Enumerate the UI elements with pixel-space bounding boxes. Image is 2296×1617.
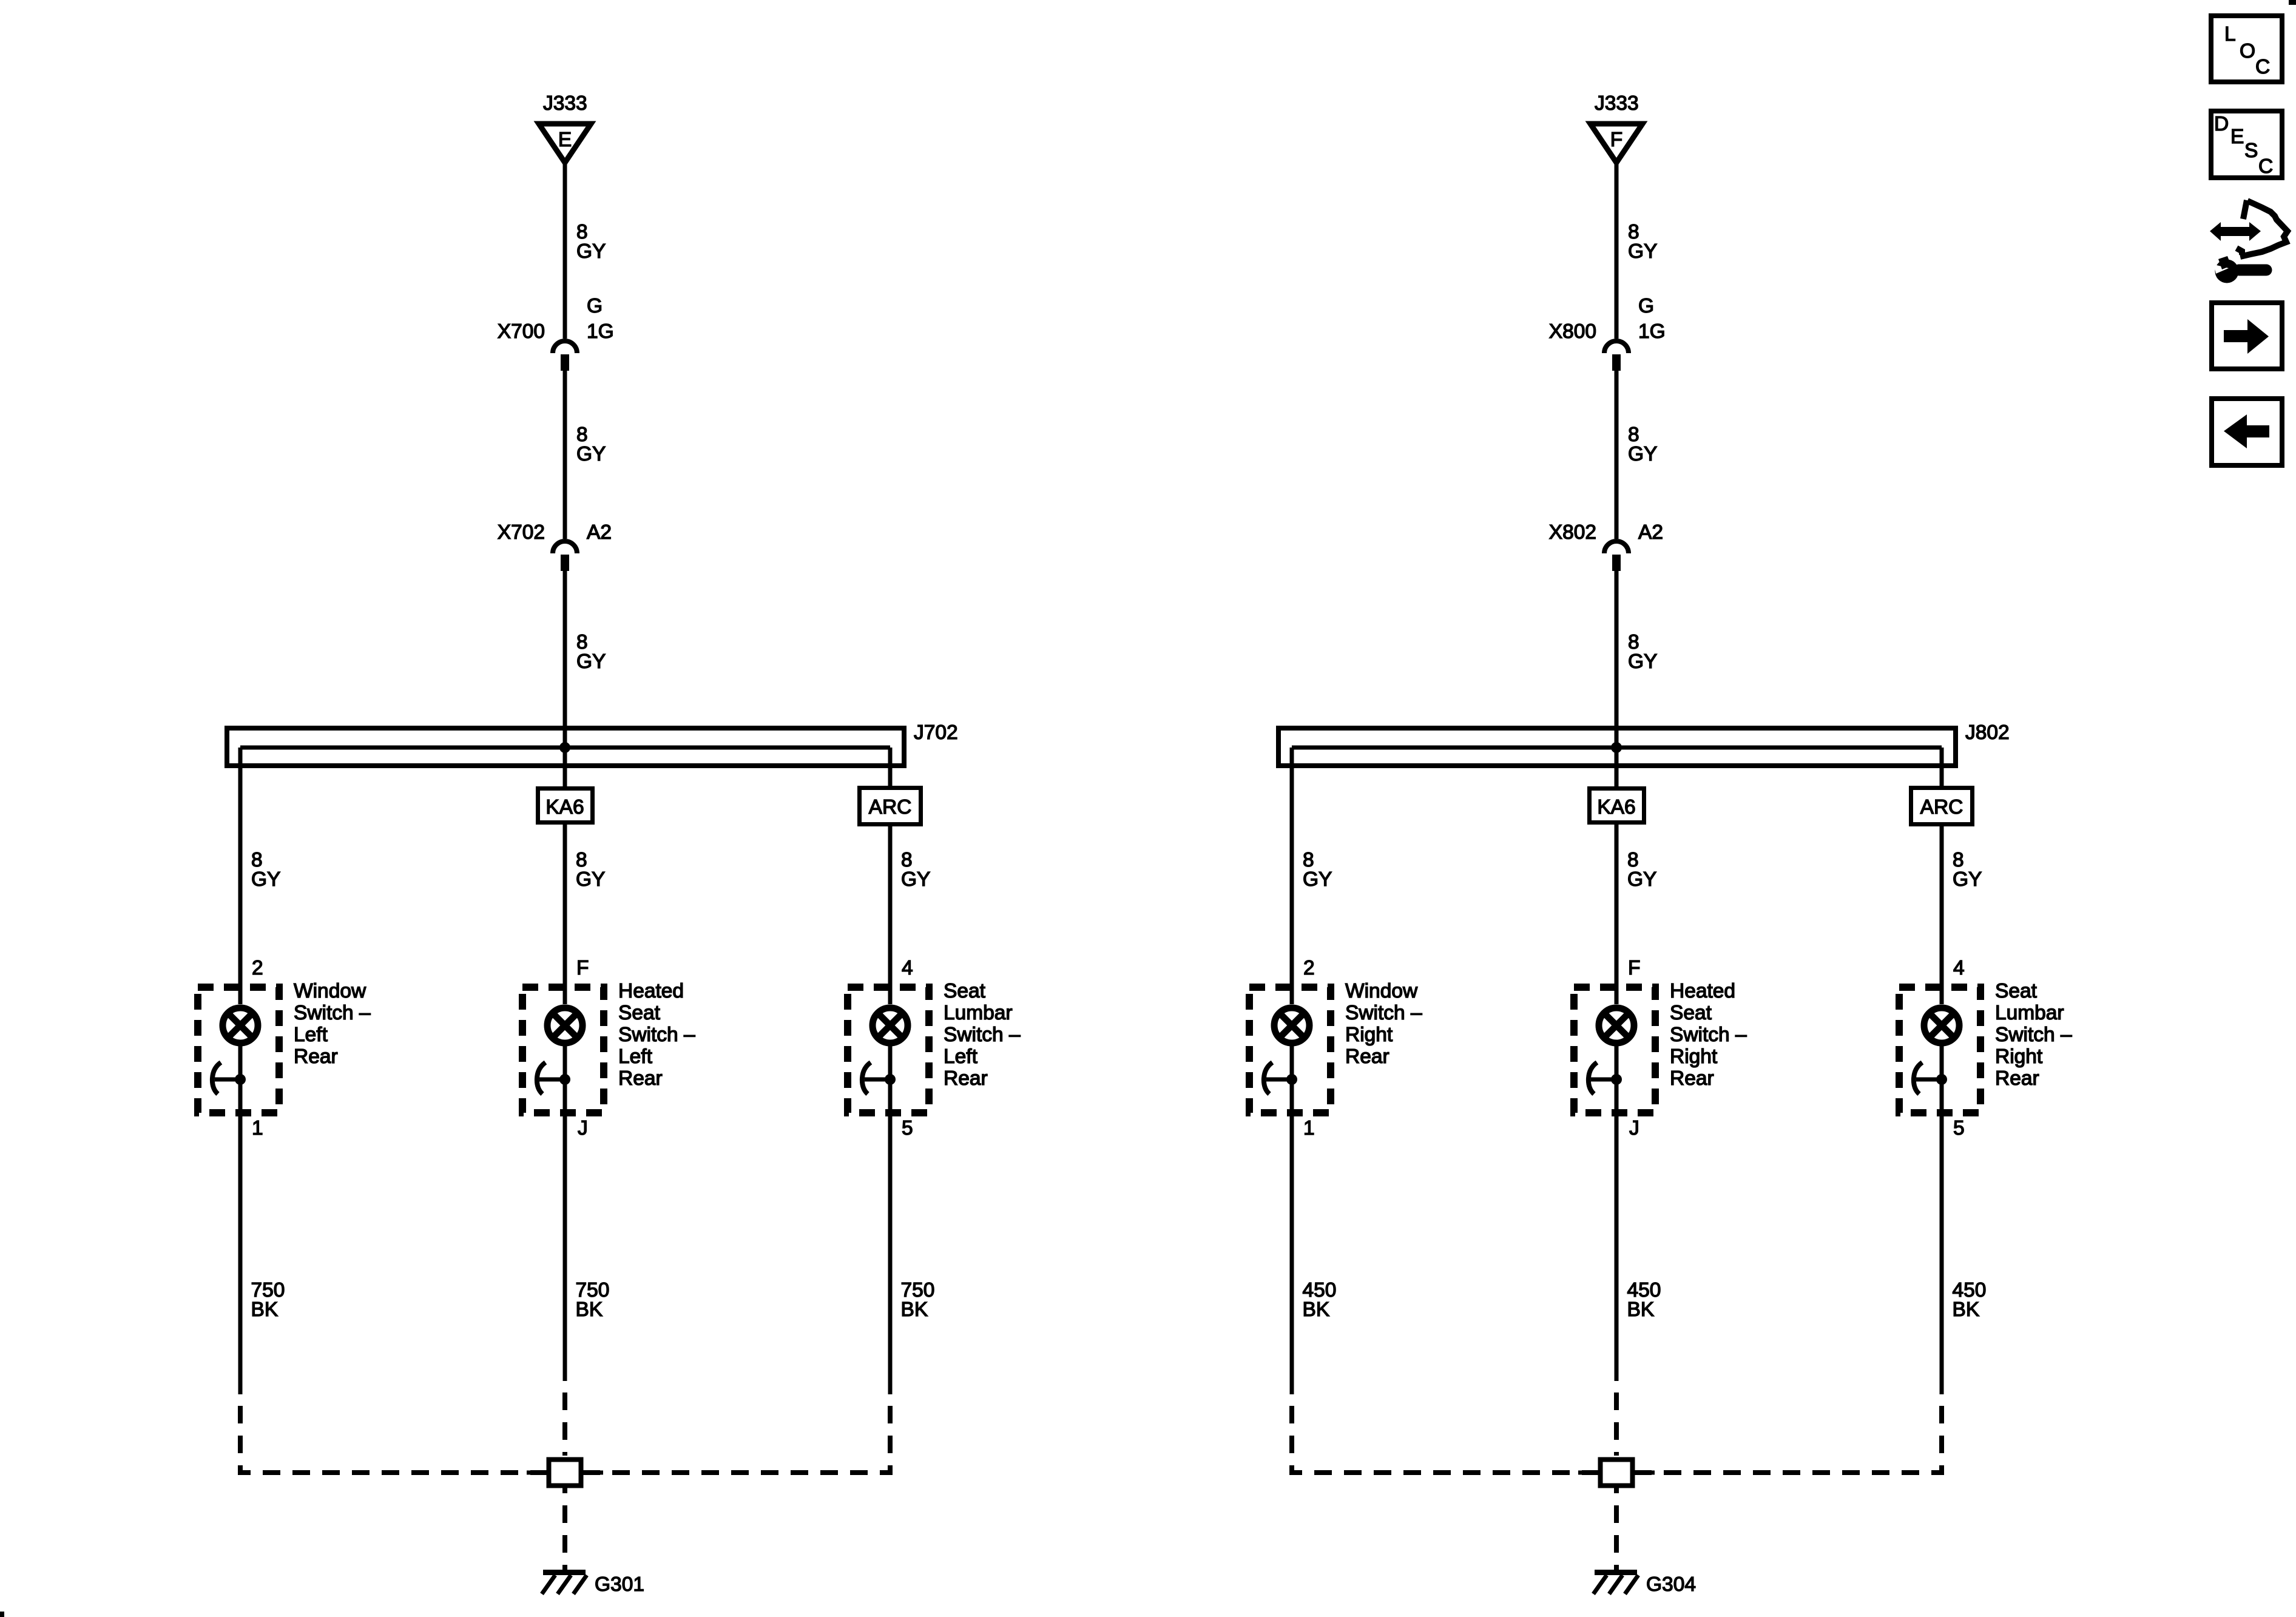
heated seat switch housing (dashed) (right half) xyxy=(1574,987,1655,1113)
svg-text:F: F xyxy=(1610,129,1622,151)
svg-text:Seat: Seat xyxy=(944,980,986,1002)
svg-text:A2: A2 xyxy=(587,521,612,544)
wire KA6 to heated seat switch, 8 GY (right half) xyxy=(1615,825,1619,1004)
wire J702 to ARC (left half) xyxy=(888,748,893,786)
nav icon LOC box xyxy=(2211,16,2282,82)
svg-text:2: 2 xyxy=(252,957,263,979)
dashed wire splice to ground (left half) xyxy=(562,1488,567,1570)
heated seat switch housing (dashed) (left half) xyxy=(522,987,604,1113)
svg-text:Switch –: Switch – xyxy=(1670,1024,1747,1046)
svg-text:Rear: Rear xyxy=(294,1045,338,1068)
connector KA6 box (left half) xyxy=(538,789,593,823)
svg-text:Switch –: Switch – xyxy=(1345,1002,1422,1024)
seat lumbar switch contact (left half) xyxy=(862,1062,896,1094)
svg-text:BK: BK xyxy=(576,1298,603,1321)
svg-text:5: 5 xyxy=(1953,1117,1965,1139)
svg-text:L: L xyxy=(2224,23,2236,46)
svg-text:Right: Right xyxy=(1345,1024,1393,1046)
svg-text:Heated: Heated xyxy=(1670,980,1735,1002)
svg-text:J: J xyxy=(578,1117,588,1139)
svg-text:Left: Left xyxy=(294,1024,328,1046)
branch wire label 8 GY (seat lumbar) (left half) xyxy=(901,849,930,891)
branch wire label 8 GY (heated seat) (right half) xyxy=(1627,849,1656,891)
branch wire label 8 GY (window) (right half) xyxy=(1303,849,1332,891)
ground wire heated seat switch (dashed) (right half) xyxy=(1614,1381,1619,1456)
svg-text:GY: GY xyxy=(1627,868,1656,891)
svg-text:F: F xyxy=(1628,957,1640,979)
ground wire window switch (dashed) (right half) xyxy=(1292,1394,1600,1473)
svg-text:X700: X700 xyxy=(498,320,545,343)
svg-text:GY: GY xyxy=(251,868,280,891)
window switch contact (right half) xyxy=(1264,1062,1297,1094)
svg-text:ARC: ARC xyxy=(1920,796,1963,819)
branch wire label 8 GY (heated seat) (left half) xyxy=(576,849,605,891)
svg-text:C: C xyxy=(2258,155,2273,178)
svg-text:Rear: Rear xyxy=(618,1067,663,1090)
svg-text:Switch –: Switch – xyxy=(294,1002,371,1024)
svg-text:J702: J702 xyxy=(914,721,958,744)
svg-text:Rear: Rear xyxy=(1995,1067,2039,1090)
seat lumbar switch contact (right half) xyxy=(1914,1062,1947,1094)
window switch housing (dashed) (right half) xyxy=(1249,987,1331,1113)
svg-text:Heated: Heated xyxy=(618,980,684,1002)
ground wire heated seat switch (dashed) (left half) xyxy=(562,1381,567,1456)
ground splice square (left half) xyxy=(527,1460,603,1486)
svg-text:Rear: Rear xyxy=(1345,1045,1389,1068)
svg-text:Rear: Rear xyxy=(944,1067,988,1090)
heated seat switch name label (left half) xyxy=(618,980,695,1090)
wire ARC to seat lumbar switch, 8 GY (right half) xyxy=(1940,826,1944,1004)
ground wire seat lumbar switch (dashed) (right half) xyxy=(1633,1394,1942,1473)
heated seat switch contact (left half) xyxy=(537,1062,570,1094)
svg-text:Window: Window xyxy=(1345,980,1418,1002)
svg-text:G301: G301 xyxy=(595,1573,644,1596)
svg-text:Switch –: Switch – xyxy=(618,1024,695,1046)
power feed triangle J333 'E' (left half) xyxy=(539,124,591,163)
wire X700 to X702, 8 GY (left half) xyxy=(563,371,567,539)
wire value label 450 BK (window) (right half) xyxy=(1303,1279,1337,1321)
svg-text:X802: X802 xyxy=(1549,521,1596,544)
svg-text:C: C xyxy=(2255,56,2270,78)
svg-text:Lumbar: Lumbar xyxy=(1995,1002,2064,1024)
svg-text:G: G xyxy=(587,295,603,317)
svg-text:Right: Right xyxy=(1995,1045,2043,1068)
heated seat switch illumination lamp (right half) xyxy=(1599,1008,1634,1043)
svg-text:1: 1 xyxy=(1303,1117,1315,1139)
nav icon forward arrow box xyxy=(2212,303,2282,369)
wire value label 8 GY (lower) (right half) xyxy=(1628,631,1657,673)
wire J802 to KA6 (right half) xyxy=(1615,748,1619,786)
svg-text:J333: J333 xyxy=(1595,92,1639,115)
wire value label 750 BK (heated seat) (left half) xyxy=(576,1279,610,1321)
window switch illumination lamp (right half) xyxy=(1274,1008,1309,1043)
svg-text:G: G xyxy=(1638,295,1654,317)
wire X702 to J702, 8 GY (left half) xyxy=(563,571,567,748)
svg-text:Switch –: Switch – xyxy=(944,1024,1021,1046)
window switch name label (right half) xyxy=(1345,980,1422,1068)
svg-text:Seat: Seat xyxy=(1670,1002,1712,1024)
seat lumbar switch name label (left half) xyxy=(944,980,1021,1090)
wire value label 450 BK (heated seat) (right half) xyxy=(1627,1279,1661,1321)
svg-text:Seat: Seat xyxy=(618,1002,661,1024)
svg-text:1G: 1G xyxy=(1638,320,1666,343)
svg-text:Right: Right xyxy=(1670,1045,1718,1068)
svg-text:GY: GY xyxy=(1628,443,1657,465)
junction block J802 outline (right half) xyxy=(1278,728,1956,766)
wire value label 750 BK (seat lumbar) (left half) xyxy=(901,1279,935,1321)
svg-text:2: 2 xyxy=(1303,957,1315,979)
wire X802 to J802, 8 GY (right half) xyxy=(1615,571,1619,748)
window switch housing (dashed) (left half) xyxy=(198,987,279,1113)
svg-text:ARC: ARC xyxy=(869,796,912,819)
junction block J702 bus bar (left half) xyxy=(240,746,890,750)
wire value label 8 GY (lower) (left half) xyxy=(576,631,606,673)
seat lumbar switch housing (dashed) (left half) xyxy=(848,987,929,1113)
ground symbol G301 (left half) xyxy=(542,1573,587,1595)
ground wire seat lumbar switch (dashed) (left half) xyxy=(581,1394,890,1473)
svg-text:F: F xyxy=(576,957,589,979)
wire J802 to window switch, 8 GY (right half) xyxy=(1290,748,1294,1004)
svg-text:Rear: Rear xyxy=(1670,1067,1714,1090)
wire ARC to seat lumbar switch, 8 GY (left half) xyxy=(888,826,893,1004)
heated seat switch contact (right half) xyxy=(1589,1062,1622,1094)
junction block J802 bus bar (right half) xyxy=(1292,746,1942,750)
junction dot on J802 bus (right half) xyxy=(1611,742,1622,753)
ground splice square (right half) xyxy=(1578,1460,1655,1486)
wire value label 8 GY (middle) (right half) xyxy=(1628,424,1657,465)
wire value label 8 GY (middle) (left half) xyxy=(576,424,606,465)
ground wire window switch (dashed) (left half) xyxy=(240,1394,549,1473)
connector ARC box (left half) xyxy=(860,788,921,825)
connector ARC box (right half) xyxy=(1911,788,1973,825)
seat lumbar switch illumination lamp (left half) xyxy=(873,1008,908,1043)
wire lamp to pin 5 (seat lumbar switch) (right half) xyxy=(1940,1046,1944,1394)
svg-text:1G: 1G xyxy=(587,320,614,343)
svg-text:Switch –: Switch – xyxy=(1995,1024,2072,1046)
svg-text:GY: GY xyxy=(1953,868,1982,891)
wire X800 to X802, 8 GY (right half) xyxy=(1615,371,1619,539)
svg-text:GY: GY xyxy=(901,868,930,891)
junction block J702 outline (left half) xyxy=(227,728,904,766)
svg-text:J: J xyxy=(1629,1117,1639,1139)
svg-text:GY: GY xyxy=(576,650,606,673)
seat lumbar switch name label (right half) xyxy=(1995,980,2072,1090)
svg-text:Window: Window xyxy=(294,980,366,1002)
heated seat switch illumination lamp (left half) xyxy=(547,1008,582,1043)
window switch name label (left half) xyxy=(294,980,371,1068)
svg-text:E: E xyxy=(2230,126,2244,148)
wire J802 to ARC (right half) xyxy=(1940,748,1944,786)
window switch illumination lamp (left half) xyxy=(223,1008,258,1043)
svg-text:5: 5 xyxy=(902,1117,913,1139)
wire value label 450 BK (seat lumbar) (right half) xyxy=(1953,1279,1987,1321)
svg-text:KA6: KA6 xyxy=(545,796,584,819)
svg-text:BK: BK xyxy=(901,1298,928,1321)
connector KA6 box (right half) xyxy=(1590,789,1644,823)
svg-text:Left: Left xyxy=(944,1045,978,1068)
wire J702 to KA6 (left half) xyxy=(563,748,567,786)
svg-text:GY: GY xyxy=(576,240,606,263)
junction dot on J702 bus (left half) xyxy=(559,742,570,753)
wire value label 750 BK (window) (left half) xyxy=(251,1279,285,1321)
svg-text:Left: Left xyxy=(618,1045,653,1068)
connector X700 symbol (left half) xyxy=(553,341,577,371)
svg-text:1: 1 xyxy=(252,1117,263,1139)
wire lamp to pin 5 (seat lumbar switch) (left half) xyxy=(888,1046,893,1394)
svg-text:Seat: Seat xyxy=(1995,980,2038,1002)
svg-text:S: S xyxy=(2244,140,2258,162)
wire lamp to pin J (heated seat switch) (left half) xyxy=(563,1046,567,1381)
seat lumbar switch illumination lamp (right half) xyxy=(1924,1008,1959,1043)
svg-text:Lumbar: Lumbar xyxy=(944,1002,1013,1024)
nav icon back arrow box xyxy=(2212,399,2282,465)
svg-text:J333: J333 xyxy=(543,92,587,115)
branch wire label 8 GY (window) (left half) xyxy=(251,849,280,891)
svg-text:G304: G304 xyxy=(1646,1573,1696,1596)
dashed wire splice to ground (right half) xyxy=(1614,1488,1619,1570)
svg-text:4: 4 xyxy=(902,957,913,979)
wire value label 8 GY (upper) (left half) xyxy=(576,221,606,263)
svg-text:A2: A2 xyxy=(1638,521,1663,544)
svg-text:J802: J802 xyxy=(1965,721,2010,744)
page corner mark bottom left xyxy=(0,1612,4,1617)
branch wire label 8 GY (seat lumbar) (right half) xyxy=(1953,849,1982,891)
window switch contact (left half) xyxy=(212,1062,246,1094)
svg-text:BK: BK xyxy=(1953,1298,1980,1321)
connector X700 pin labels G / 1G (left half) xyxy=(587,295,614,343)
connector X802 symbol (right half) xyxy=(1604,541,1629,571)
nav icon DESC box xyxy=(2211,111,2282,178)
svg-text:X702: X702 xyxy=(498,521,545,544)
svg-text:GY: GY xyxy=(1628,650,1657,673)
svg-text:BK: BK xyxy=(1627,1298,1655,1321)
power feed triangle J333 'F' (right half) xyxy=(1590,124,1643,163)
svg-text:GY: GY xyxy=(1303,868,1332,891)
svg-text:X800: X800 xyxy=(1549,320,1596,343)
svg-text:BK: BK xyxy=(251,1298,279,1321)
svg-text:KA6: KA6 xyxy=(1597,796,1635,819)
connector-view icon (arrows and wrench) xyxy=(2210,200,2288,283)
wire J333 to X700, 8 GY (left half) xyxy=(563,164,567,339)
svg-text:E: E xyxy=(558,129,572,151)
svg-text:GY: GY xyxy=(1628,240,1657,263)
page corner mark top right xyxy=(2289,0,2296,5)
seat lumbar switch housing (dashed) (right half) xyxy=(1899,987,1980,1113)
svg-text:4: 4 xyxy=(1953,957,1965,979)
svg-text:D: D xyxy=(2214,113,2229,135)
wire KA6 to heated seat switch, 8 GY (left half) xyxy=(563,825,567,1004)
svg-text:O: O xyxy=(2240,40,2255,62)
connector X800 symbol (right half) xyxy=(1604,341,1629,371)
heated seat switch name label (right half) xyxy=(1670,980,1747,1090)
wire lamp to pin 1 (window switch) (left half) xyxy=(238,1046,243,1394)
svg-text:GY: GY xyxy=(576,443,606,465)
wire J702 to window switch, 8 GY (left half) xyxy=(238,748,243,1004)
svg-text:BK: BK xyxy=(1303,1298,1330,1321)
svg-text:GY: GY xyxy=(576,868,605,891)
wire value label 8 GY (upper) (right half) xyxy=(1628,221,1657,263)
wire lamp to pin J (heated seat switch) (right half) xyxy=(1615,1046,1619,1381)
wire lamp to pin 1 (window switch) (right half) xyxy=(1290,1046,1294,1394)
wire J333 to X800, 8 GY (right half) xyxy=(1615,164,1619,339)
connector X702 symbol (left half) xyxy=(553,541,577,571)
connector X800 pin labels G / 1G (right half) xyxy=(1638,295,1666,343)
ground symbol G304 (right half) xyxy=(1593,1573,1638,1595)
